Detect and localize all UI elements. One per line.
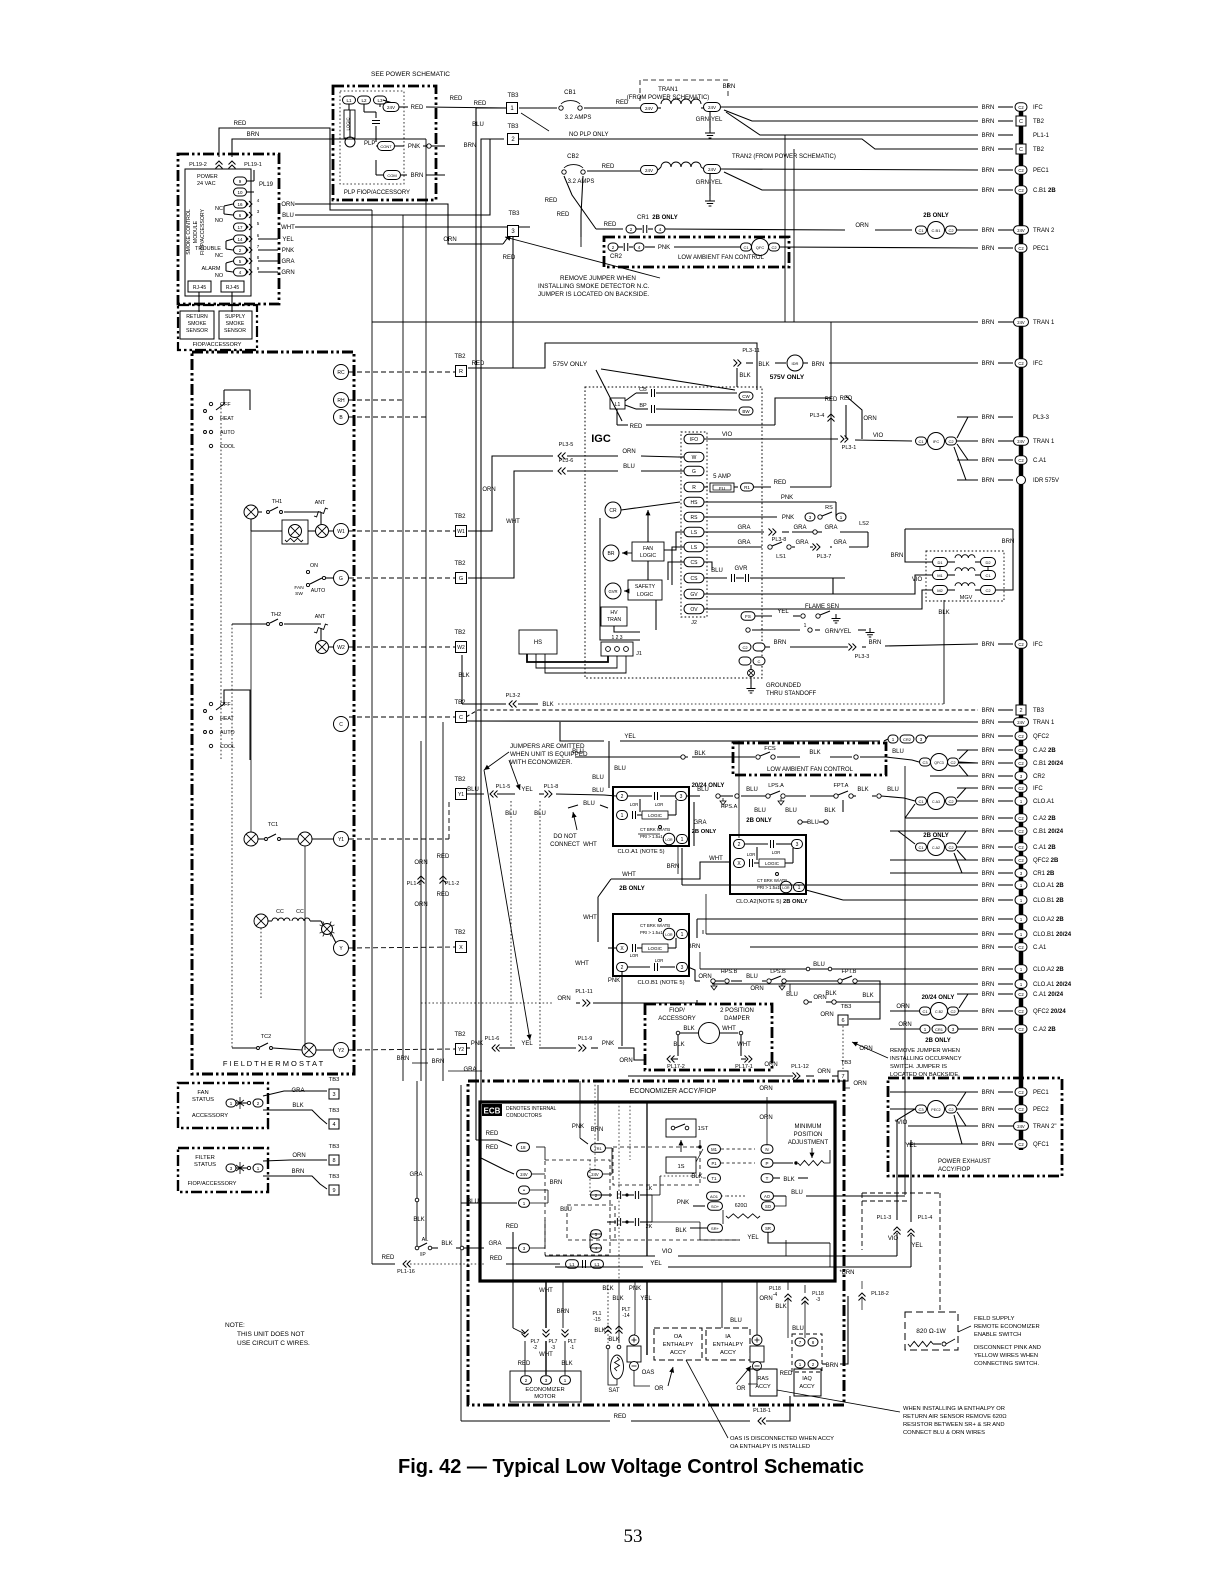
svg-text:BLK: BLK bbox=[441, 1241, 452, 1247]
wire PL1-11 to B1 bbox=[593, 1000, 697, 1003]
label BLK bbox=[857, 787, 868, 793]
svg-text:CT BRK W/ATB: CT BRK W/ATB bbox=[640, 827, 670, 832]
svg-text:BRN: BRN bbox=[982, 829, 995, 835]
wire L3 to 24V bbox=[383, 100, 391, 103]
wire row 919 bbox=[697, 918, 880, 920]
svg-text:PL1-9: PL1-9 bbox=[578, 1036, 593, 1042]
capacitor CB bbox=[652, 389, 655, 397]
wire bbox=[567, 470, 618, 472]
label PL1-1 riser bbox=[407, 881, 422, 887]
IGC pin LS bbox=[684, 527, 704, 537]
svg-text:CR1: CR1 bbox=[637, 215, 650, 221]
label RED bbox=[382, 1255, 395, 1261]
switch TH2 bbox=[270, 619, 278, 623]
wire bbox=[658, 107, 661, 109]
label BRN bbox=[982, 320, 995, 326]
svg-text:C2: C2 bbox=[1018, 188, 1024, 193]
svg-text:BRN: BRN bbox=[982, 133, 995, 139]
terminal 4 bbox=[634, 243, 644, 251]
svg-text:3.2 AMPS: 3.2 AMPS bbox=[568, 179, 595, 185]
svg-text:C1: C1 bbox=[985, 573, 991, 578]
terminal C1 bbox=[916, 797, 927, 805]
connector PL19-2 bbox=[216, 161, 223, 169]
contact bbox=[853, 979, 857, 983]
CLO.B1 LOGIC box bbox=[642, 944, 668, 952]
label RED bbox=[518, 1361, 531, 1367]
svg-text:BRN: BRN bbox=[982, 1107, 995, 1113]
svg-text:LOW AMBIENT FAN CONTROL: LOW AMBIENT FAN CONTROL bbox=[678, 255, 765, 261]
label VIO bbox=[895, 1120, 908, 1126]
svg-text:ACCY/FIOP: ACCY/FIOP bbox=[938, 1167, 970, 1173]
terminal QFC3 bbox=[931, 754, 948, 771]
terminal 4 bbox=[329, 1119, 339, 1129]
terminal C.B1 bbox=[928, 222, 945, 239]
svg-text:BRN: BRN bbox=[982, 1027, 995, 1033]
wire B1 up bbox=[696, 919, 698, 938]
wire PEC1 in bbox=[890, 1091, 908, 1093]
LOW AMBIENT FAN CONTROL enclosure 1 bbox=[604, 237, 789, 267]
wire bbox=[268, 920, 272, 922]
terminal C1 bbox=[916, 843, 927, 851]
wire bbox=[611, 1148, 613, 1174]
svg-text:IGC: IGC bbox=[591, 433, 611, 445]
wire to PL1-1 bbox=[726, 112, 978, 135]
terminal Y1 bbox=[456, 789, 467, 800]
label FPT.B bbox=[842, 969, 857, 975]
wire fan IFC bbox=[957, 788, 978, 798]
wire GRA to 3 bbox=[506, 1247, 517, 1249]
svg-text:OV: OV bbox=[690, 607, 698, 613]
wire bbox=[660, 795, 675, 797]
wire to FPT.B bbox=[786, 980, 838, 982]
label PL3-7 bbox=[817, 554, 832, 560]
label GVR bbox=[734, 566, 748, 572]
terminal blank2 bbox=[739, 657, 751, 665]
main 24V bus bbox=[1019, 103, 1024, 1150]
svg-text:BLU: BLU bbox=[711, 568, 723, 574]
svg-text:1: 1 bbox=[681, 932, 684, 938]
terminal 3 bbox=[916, 735, 926, 743]
switch contact HEAT bbox=[209, 416, 212, 419]
wire bbox=[467, 1047, 470, 1049]
svg-text:LOGIC: LOGIC bbox=[648, 813, 663, 818]
svg-text:OAS: OAS bbox=[642, 1370, 655, 1376]
wire stub IDR 575V bbox=[957, 479, 978, 481]
bus terminal C2 bbox=[1015, 1088, 1027, 1097]
terminal X bbox=[617, 944, 628, 953]
svg-text:SMOKE: SMOKE bbox=[188, 321, 207, 327]
svg-text:RED: RED bbox=[506, 1224, 519, 1230]
terminal C.A3 bbox=[928, 793, 945, 810]
svg-text:C2: C2 bbox=[771, 245, 777, 250]
label TB2 bbox=[454, 630, 466, 636]
svg-text:10: 10 bbox=[237, 190, 243, 195]
svg-text:L1: L1 bbox=[569, 1262, 575, 1267]
label BLU bbox=[534, 811, 546, 817]
internal dashed region 3 bbox=[567, 1205, 615, 1240]
label DENOTES INTERNAL bbox=[506, 1106, 557, 1112]
svg-text:PNK: PNK bbox=[677, 1200, 689, 1206]
label CLO.A2 NOTE 5 bbox=[736, 899, 808, 905]
capacitor 2K b bbox=[635, 1218, 638, 1226]
label RJ-45 bbox=[193, 285, 207, 291]
compressor coil X bbox=[244, 832, 258, 846]
wire L1 down bbox=[616, 409, 618, 425]
svg-text:TB3: TB3 bbox=[508, 211, 520, 217]
wire bbox=[456, 1247, 460, 1249]
svg-text:BRN: BRN bbox=[397, 1056, 410, 1062]
wire BRN to bus bbox=[998, 884, 1013, 886]
svg-text:PNK: PNK bbox=[602, 1041, 614, 1047]
label FCS bbox=[764, 746, 776, 752]
terminal IDR bbox=[787, 355, 803, 371]
label AUTO bbox=[220, 430, 235, 436]
terminal B bbox=[334, 410, 349, 425]
label INSTALLING SMOKE DETECTOR bbox=[538, 283, 650, 290]
wire RED riser x831 bbox=[830, 322, 832, 487]
wire RED bottom r bbox=[631, 1420, 750, 1422]
svg-text:GRA: GRA bbox=[833, 540, 846, 546]
svg-text:LOR: LOR bbox=[665, 838, 673, 842]
svg-text:IAQ: IAQ bbox=[802, 1376, 812, 1382]
wire bbox=[247, 191, 254, 193]
label ACCESSORY 3 bbox=[658, 1016, 696, 1022]
wire BLK to TB3-4 bbox=[263, 1110, 327, 1124]
svg-text:M1: M1 bbox=[937, 573, 943, 578]
wire stub CLO.A2 bbox=[700, 968, 978, 970]
wire bbox=[636, 408, 648, 410]
wire PEC2 in bbox=[890, 1108, 915, 1110]
wire CB2 to low ambient box bbox=[580, 237, 582, 247]
svg-text:ORN: ORN bbox=[863, 416, 876, 422]
svg-text:CR2: CR2 bbox=[903, 737, 912, 742]
svg-text:BRN: BRN bbox=[982, 1009, 995, 1015]
bus terminal C2 bbox=[1015, 186, 1027, 195]
label BLU bbox=[754, 808, 766, 814]
terminal SO+ bbox=[708, 1202, 723, 1211]
wire stub IFC bbox=[957, 787, 978, 789]
wire bbox=[226, 261, 233, 263]
wire BRN drop A1 bbox=[681, 848, 683, 885]
terminal 2 bbox=[808, 1360, 818, 1368]
svg-text:TRAN 1: TRAN 1 bbox=[1033, 439, 1055, 445]
label POWER bbox=[197, 174, 218, 180]
svg-text:1: 1 bbox=[804, 623, 807, 629]
label FIOP ACCESSORY bbox=[200, 208, 206, 255]
wire TC2 row bbox=[273, 1048, 302, 1050]
label ORN bbox=[820, 1012, 833, 1018]
drain HPS.B bbox=[711, 983, 717, 990]
label RED bbox=[486, 1145, 499, 1151]
label BLU bbox=[560, 1207, 572, 1213]
contact bbox=[306, 583, 309, 586]
wire YEL row l bbox=[555, 1266, 643, 1268]
label GRA bbox=[793, 525, 806, 531]
svg-text:D2: D2 bbox=[985, 560, 991, 565]
svg-text:GRA: GRA bbox=[281, 259, 294, 265]
terminal 24V bbox=[641, 104, 658, 113]
wire row 934 bbox=[706, 933, 880, 935]
connector PL1-8 bbox=[545, 791, 553, 798]
pin arrow bbox=[245, 269, 252, 275]
label PNK bbox=[658, 245, 670, 251]
label C.B1 2B bbox=[1033, 188, 1056, 194]
switch FCS blade bbox=[760, 752, 770, 756]
terminal T1 bbox=[708, 1174, 721, 1183]
connector PL18-1 bbox=[758, 1418, 766, 1425]
wire bbox=[849, 546, 868, 548]
wire 2K out bbox=[640, 1221, 652, 1223]
svg-text:C: C bbox=[1019, 147, 1023, 153]
label 20/24 ONLY bbox=[922, 995, 955, 1001]
label COOL bbox=[220, 444, 235, 450]
wire to IFC bbox=[721, 106, 978, 108]
svg-text:TH2: TH2 bbox=[271, 612, 281, 618]
wire bbox=[668, 814, 676, 816]
contact bbox=[766, 794, 770, 798]
wire fan CR2-3 bbox=[959, 765, 978, 776]
label RED bbox=[490, 1256, 503, 1262]
wire bbox=[363, 104, 365, 112]
label BRN bbox=[982, 761, 995, 767]
label CONNECT BLU ORN bbox=[903, 1430, 985, 1436]
IGC pin OV bbox=[684, 604, 704, 614]
capacitor logic B1 bbox=[633, 944, 636, 952]
wire row 934 b bbox=[880, 933, 952, 935]
terminal 4 bbox=[591, 1244, 602, 1253]
contact bbox=[739, 1031, 743, 1035]
label LPS.A bbox=[768, 783, 784, 789]
sense tap 2 bbox=[776, 873, 779, 876]
label RED bbox=[557, 212, 570, 218]
wire HS to J1-3 bbox=[545, 654, 626, 673]
arrow min pos bbox=[810, 1148, 815, 1158]
svg-text:HS: HS bbox=[534, 640, 542, 646]
label PL18 bbox=[769, 1286, 781, 1292]
bus terminal C2 bbox=[1015, 827, 1027, 836]
wire GV to MGV bbox=[704, 575, 932, 594]
svg-text:MODULE: MODULE bbox=[193, 220, 199, 243]
wire BRN to C2 bbox=[996, 529, 1013, 590]
wire bbox=[858, 629, 866, 631]
svg-text:OFF: OFF bbox=[220, 702, 231, 708]
svg-text:PRI > 1.5±1: PRI > 1.5±1 bbox=[640, 834, 663, 839]
svg-text:TRAN2 (FROM POWER SCHEMATIC): TRAN2 (FROM POWER SCHEMATIC) bbox=[732, 154, 836, 160]
wire IDR to bus bbox=[829, 362, 978, 364]
label RED bbox=[825, 397, 838, 403]
label PL3-3 bbox=[1033, 415, 1050, 421]
svg-text:LOR: LOR bbox=[630, 802, 639, 807]
wire RED elbow bbox=[513, 1328, 525, 1334]
terminal BW bbox=[739, 407, 753, 415]
svg-text:CR2: CR2 bbox=[1033, 774, 1046, 780]
wire CB to CW bbox=[656, 392, 737, 394]
svg-text:FPT.B: FPT.B bbox=[842, 969, 857, 975]
label TRAN1 bbox=[658, 87, 678, 93]
label PL18 b bbox=[812, 1291, 824, 1297]
label BLU bbox=[572, 749, 584, 755]
wire bbox=[225, 263, 227, 271]
wire stub PNK bbox=[258, 249, 278, 251]
terminal C2 bbox=[946, 843, 957, 851]
wire bbox=[636, 392, 648, 394]
svg-text:YEL: YEL bbox=[777, 609, 789, 615]
svg-text:BRN: BRN bbox=[1002, 539, 1015, 545]
wire TB3-3 RED drop bbox=[512, 237, 514, 368]
wire BLU AO bbox=[806, 1195, 905, 1197]
svg-text:ORN: ORN bbox=[619, 1058, 632, 1064]
wire bbox=[628, 966, 650, 968]
switch contact COOL bbox=[209, 444, 212, 447]
svg-text:2B ONLY: 2B ONLY bbox=[652, 215, 677, 221]
svg-text:LOW AMBIENT FAN CONTROL: LOW AMBIENT FAN CONTROL bbox=[767, 767, 854, 773]
label CLO.B1 2B bbox=[1033, 898, 1064, 904]
wire to PEC1 stub bbox=[780, 247, 978, 248]
label DO NOT bbox=[553, 834, 577, 840]
label QFC1 bbox=[1033, 1142, 1050, 1148]
label CLO.A1 bbox=[1033, 799, 1055, 805]
filter status switch bbox=[236, 1162, 244, 1174]
bus terminal C2 bbox=[1015, 843, 1027, 852]
wire TRAN1 ground lead bbox=[709, 112, 711, 128]
wire BRN bbox=[790, 646, 848, 648]
wire 820 out bbox=[933, 1343, 941, 1345]
wire stub CR2 bbox=[930, 775, 978, 777]
wire CR to HS bbox=[621, 502, 680, 510]
svg-text:C2: C2 bbox=[1018, 642, 1024, 647]
wire bbox=[948, 589, 955, 591]
TRAN1 outline bbox=[640, 80, 728, 101]
wire BRN to bus bbox=[998, 946, 1013, 948]
svg-text:BRN: BRN bbox=[982, 883, 995, 889]
svg-text:RS: RS bbox=[825, 505, 833, 511]
label 620 ohm bbox=[735, 1203, 748, 1209]
label -1 bbox=[570, 1345, 575, 1351]
label PNK bbox=[781, 495, 793, 501]
svg-text:BLU: BLU bbox=[730, 1318, 742, 1324]
svg-text:PLP: PLP bbox=[364, 141, 375, 147]
heater element X bbox=[289, 525, 302, 538]
svg-text:PL3-6: PL3-6 bbox=[559, 458, 574, 464]
label BLU bbox=[786, 992, 798, 998]
switch pole b bbox=[204, 710, 207, 713]
wire A2 to CLO.B1 row bbox=[806, 890, 843, 900]
svg-text:BLK: BLK bbox=[561, 1361, 572, 1367]
label TRAN bbox=[607, 617, 621, 623]
svg-text:BLU: BLU bbox=[697, 787, 709, 793]
bus terminal C2 bbox=[1015, 943, 1027, 952]
label ORN bbox=[859, 1046, 872, 1052]
wire bbox=[703, 1177, 706, 1179]
svg-text:16: 16 bbox=[237, 202, 243, 207]
svg-text:BRN: BRN bbox=[982, 439, 995, 445]
contact link bbox=[224, 204, 233, 206]
wire to standoff bbox=[750, 665, 752, 670]
wire BRN to bus bbox=[998, 440, 1013, 442]
svg-text:BRN: BRN bbox=[591, 1127, 604, 1133]
label FU bbox=[719, 486, 725, 491]
svg-text:C2: C2 bbox=[948, 799, 954, 804]
drain HPS.A bbox=[720, 798, 726, 805]
label RED bbox=[234, 121, 247, 127]
pin number 6 bbox=[257, 233, 260, 238]
svg-text:LOGIC: LOGIC bbox=[648, 946, 663, 951]
capacitor L1 bbox=[583, 1260, 586, 1268]
wire bbox=[975, 589, 981, 591]
label RED bbox=[774, 480, 787, 486]
svg-text:CB2: CB2 bbox=[567, 154, 579, 160]
wire TB3-6 to TB3-7 bbox=[842, 1026, 844, 1069]
terminal C2 bbox=[946, 797, 957, 805]
label TB3 bbox=[507, 124, 519, 130]
svg-text:WHT: WHT bbox=[722, 1026, 736, 1032]
wire bbox=[519, 107, 557, 109]
svg-text:T: T bbox=[766, 1176, 769, 1181]
svg-text:RED: RED bbox=[382, 1255, 395, 1261]
svg-text:RED: RED bbox=[472, 361, 485, 367]
wire stub CLO.A2 bbox=[700, 918, 978, 920]
wire bbox=[625, 405, 636, 409]
svg-text:HS: HS bbox=[691, 500, 699, 506]
label BLU bbox=[892, 749, 904, 755]
wire bbox=[399, 106, 408, 108]
wire PNK HS bbox=[704, 501, 836, 503]
wire pot out bbox=[824, 1150, 830, 1163]
terminal 1 bbox=[920, 1025, 930, 1033]
label BLU bbox=[505, 811, 517, 817]
wire VIO row l bbox=[545, 1255, 655, 1257]
svg-text:LS1: LS1 bbox=[776, 554, 786, 560]
svg-text:BLK: BLK bbox=[292, 1103, 303, 1109]
terminal C2 bbox=[946, 1105, 957, 1113]
label 3.2 AMPS bbox=[565, 115, 592, 121]
label BRN bbox=[982, 133, 995, 139]
label PL3-11 bbox=[742, 348, 759, 354]
pointer jumpers b bbox=[509, 760, 521, 790]
svg-text:24V: 24V bbox=[645, 168, 653, 173]
label WHT bbox=[539, 1352, 553, 1358]
label WHT bbox=[737, 1042, 751, 1048]
label PEC1 bbox=[1033, 168, 1049, 174]
svg-text:L1: L1 bbox=[346, 98, 352, 103]
svg-text:RJ-45: RJ-45 bbox=[193, 285, 207, 291]
svg-text:BLU: BLU bbox=[282, 213, 294, 219]
SAFETY LOGIC box bbox=[628, 580, 662, 600]
svg-text:PL19: PL19 bbox=[259, 182, 274, 188]
svg-text:X: X bbox=[459, 945, 463, 951]
wire riser x794 bbox=[793, 149, 795, 322]
label REMOVE JUMPER WHEN 2 bbox=[560, 275, 636, 282]
wire CC row bbox=[310, 920, 321, 922]
terminal 7 bbox=[795, 1338, 805, 1346]
wire 1ST link bbox=[696, 1140, 700, 1147]
svg-text:MOTOR: MOTOR bbox=[534, 1394, 555, 1400]
label RED bbox=[604, 222, 617, 228]
wire to TB2 bbox=[724, 110, 978, 121]
relay CLO.A2 box bbox=[730, 835, 806, 894]
label BLK bbox=[608, 1337, 619, 1343]
wire BRN to bus bbox=[998, 321, 1013, 323]
svg-text:DAMPER: DAMPER bbox=[724, 1016, 750, 1022]
wire bbox=[774, 1195, 786, 1197]
svg-text:WHT: WHT bbox=[622, 872, 636, 878]
svg-text:RETURN AIR SENSOR REMOVE 620Ω: RETURN AIR SENSOR REMOVE 620Ω bbox=[903, 1414, 1007, 1420]
terminal 1 bbox=[794, 883, 805, 892]
bus terminal 1 bbox=[1015, 915, 1027, 924]
wire ORN drop bbox=[846, 396, 862, 439]
wire row 934 drop bbox=[705, 894, 707, 934]
wire bbox=[773, 1177, 780, 1179]
